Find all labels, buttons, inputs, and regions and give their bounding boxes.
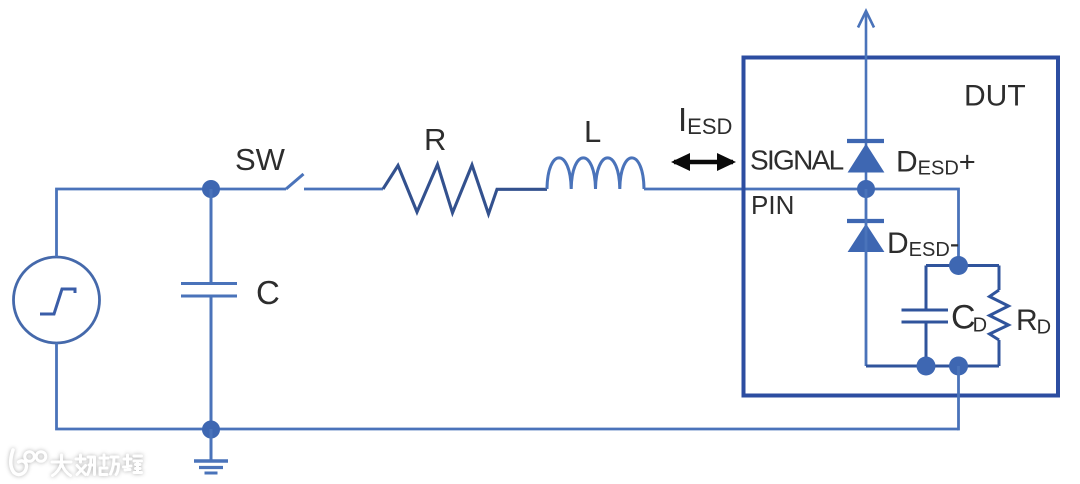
capacitor C top lead [210,189,213,283]
node top-left junction dot [202,180,220,198]
resistor R_D zigzag [990,290,1009,340]
arrowhead I_ESD right [717,153,736,171]
wire RC top rail [926,264,999,267]
arrowhead I_ESD left [671,153,690,171]
watermark halo [11,450,142,476]
svg-text:C: C [256,274,280,311]
DUT box [744,58,1059,396]
arrow I_ESD double-headed [674,160,733,165]
source V1 step waveform symbol [40,289,75,314]
inductor L [547,158,644,189]
capacitor C_D top lead [925,266,928,311]
capacitor C plates [181,284,237,297]
svg-text:PIN: PIN [751,190,794,220]
ground bar 1 [194,459,228,463]
diode D_ESD+ cathode bar [847,139,884,143]
diode D_ESD- cathode bar [847,219,884,223]
wire vertical ESD diode branch lower [865,189,868,366]
node signal pin junction dot [857,180,875,198]
diode D_ESD- triangle [849,225,884,252]
arrowhead top (to VDD) [858,11,874,28]
capacitor C bottom lead [210,296,213,429]
svg-text:DESD+: DESD+ [896,146,976,180]
switch SW blade [286,174,304,189]
svg-text:L: L [584,114,601,149]
node bottom junction dot [202,421,220,439]
node RC bottom right dot [949,357,968,376]
resistor R zigzag [383,165,547,215]
resistor R_D bottom lead [998,340,1001,366]
wire inductor to DUT signal pin and right branch drop [644,189,959,266]
wire DUT ground drop [957,366,960,430]
diode D_ESD+ triangle [849,145,884,173]
source V1 (pulse generator circle) [14,257,100,343]
svg-text:RD: RD [1016,304,1051,339]
capacitor C_D plates [902,310,949,322]
svg-text:DESD-: DESD- [887,227,959,261]
node RC top junction dot [949,256,968,275]
node RC bottom left dot [917,357,936,376]
svg-text:CD: CD [951,299,987,337]
wire vertical ESD diode branch upper [865,12,868,190]
resistor R_D top lead [998,266,1001,291]
ground stem [210,429,213,460]
wire source bottom lead and bottom horizontal [57,343,959,429]
svg-text:R: R [424,122,446,157]
wire RC bottom rail [866,365,999,368]
wire source top lead and top-left horizontal [57,189,287,257]
svg-text:SIGNAL: SIGNAL [750,145,844,176]
svg-text:IESD: IESD [678,101,732,139]
capacitor C_D bottom lead [925,322,928,366]
ground bar 2 [199,466,223,469]
watermark strokes [11,450,142,476]
svg-text:DUT: DUT [964,80,1026,113]
ground bar 3 [205,472,218,475]
svg-text:SW: SW [235,142,286,177]
wire switch to resistor [304,188,383,191]
